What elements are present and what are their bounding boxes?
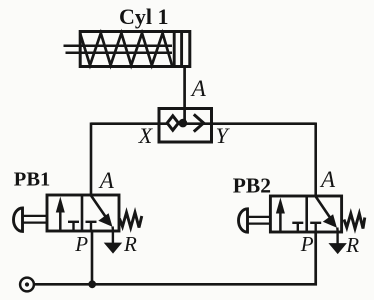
valve PB2 port R label xyxy=(345,233,359,257)
svg-text:Cyl 1: Cyl 1 xyxy=(119,4,169,29)
cylinder piston xyxy=(174,31,181,67)
valve PB2 body xyxy=(270,196,341,232)
valve PB2 flow arrow (left box) xyxy=(276,198,285,231)
junction node at PB1 P xyxy=(88,280,96,288)
svg-text:P: P xyxy=(300,232,314,256)
valve PB1 push button xyxy=(14,208,47,231)
valve PB1 blocked port T right xyxy=(86,222,97,231)
valve PB1 return spring xyxy=(120,213,142,228)
cylinder piston rod xyxy=(64,46,173,53)
svg-text:PB2: PB2 xyxy=(233,174,271,198)
valve PB1 divider xyxy=(81,195,84,231)
svg-text:X: X xyxy=(138,123,154,148)
valve PB1 flow arrow (left box) xyxy=(56,197,65,230)
pressure source symbol xyxy=(20,278,34,292)
shuttle valve body xyxy=(159,109,212,143)
valve PB1 blocked port T left xyxy=(68,222,79,231)
wire cylinder to shuttle valve xyxy=(183,67,186,122)
wire PB1 port P down to supply bus xyxy=(91,231,94,284)
valve PB1 body xyxy=(47,195,119,231)
valve PB1 port A label xyxy=(98,168,115,193)
valve PB1 port P label xyxy=(74,232,88,256)
valve PB1 exhaust triangle R xyxy=(106,231,119,252)
svg-text:Y: Y xyxy=(216,123,231,148)
valve PB2 exhaust diagonal arrow A to R xyxy=(316,197,338,233)
cylinder spring xyxy=(80,33,172,65)
shuttle valve ball xyxy=(179,119,188,128)
node A label (shuttle outlet) xyxy=(190,76,207,101)
svg-text:R: R xyxy=(345,233,359,257)
wire horizontal bus X-Y through shuttle xyxy=(91,122,316,125)
valve PB1 exhaust diagonal arrow A to R xyxy=(91,196,113,232)
wire right riser to PB2 port A xyxy=(314,123,317,197)
valve PB2 port P label xyxy=(300,232,314,256)
port Y label xyxy=(216,123,231,148)
valve PB2 divider xyxy=(305,196,308,232)
svg-text:PB1: PB1 xyxy=(14,169,50,191)
shuttle valve ball seat diamond xyxy=(167,116,178,130)
label Cyl 1 xyxy=(119,4,169,29)
wire supply bus with riser to PB2 port P xyxy=(34,232,316,284)
valve PB2 return spring xyxy=(344,214,365,229)
valve PB2 port A label xyxy=(319,167,336,192)
svg-text:A: A xyxy=(319,167,336,192)
wire left riser to PB1 port A xyxy=(90,123,93,196)
svg-text:P: P xyxy=(74,232,88,256)
valve PB2 push button xyxy=(239,209,271,232)
svg-text:A: A xyxy=(190,76,207,101)
valve PB2 exhaust triangle R xyxy=(331,232,344,252)
shuttle valve chevron xyxy=(194,114,204,131)
valve PB2 blocked port T right xyxy=(310,223,321,232)
valve PB2 blocked port T left xyxy=(292,223,303,232)
port X label xyxy=(138,123,154,148)
cylinder Cyl 1 barrel xyxy=(80,32,190,67)
valve PB1 port R label xyxy=(123,232,137,256)
label PB2 xyxy=(233,174,271,198)
label PB1 xyxy=(14,169,50,191)
svg-text:R: R xyxy=(123,232,137,256)
svg-text:A: A xyxy=(98,168,115,193)
